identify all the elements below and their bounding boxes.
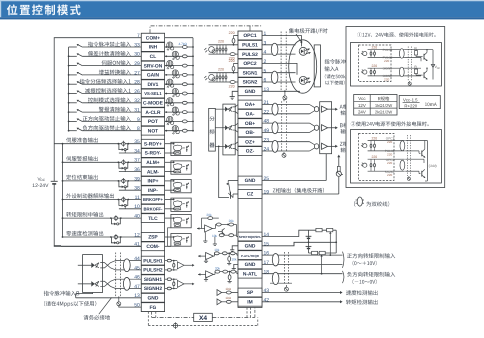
svg-text:220: 220 — [384, 59, 389, 63]
svg-text:GAIN: GAIN — [147, 73, 160, 79]
dashed stubs below SP/IM to enclosure — [246, 308, 248, 318]
svg-text:GND: GND — [245, 89, 256, 95]
svg-text:44: 44 — [134, 256, 140, 262]
svg-text:16: 16 — [264, 251, 270, 257]
line receiver box — [320, 102, 332, 154]
pin box COM+ pin 7 — [141, 33, 164, 42]
pin box N-ATL pin 18 — [238, 269, 262, 278]
wires OA+/- to receiver — [262, 104, 310, 106]
svg-text:220: 220 — [218, 68, 224, 72]
label 集电极开路I/F时 with leader arrow — [289, 28, 328, 34]
label B相输出 — [340, 123, 348, 128]
label 正方向驱动禁止输入 — [83, 116, 131, 121]
resistor 1k (SP) — [226, 291, 231, 294]
svg-text:48: 48 — [264, 119, 270, 125]
input opto row CL — [165, 55, 193, 57]
resistor 4.7k row CL — [182, 55, 187, 58]
opto pair SIGN (box 1) — [363, 70, 367, 74]
pin box S-RDY+ pin 35 — [141, 139, 164, 148]
svg-text:8: 8 — [137, 126, 140, 132]
svg-text:43: 43 — [264, 288, 270, 294]
svg-text:39: 39 — [134, 176, 140, 182]
pin box OZ+ pin 23 — [238, 137, 262, 146]
opto LED lower (SIGN) — [299, 76, 307, 84]
table Vcc / R spec — [354, 95, 397, 116]
svg-text:220: 220 — [387, 161, 392, 165]
vertical resistor 10k (P-ATL) — [228, 257, 231, 262]
wires pair2 box2 — [405, 158, 424, 160]
svg-text:1: 1 — [264, 31, 267, 37]
pin box PULS2 pin 4 — [238, 50, 262, 59]
svg-text:19: 19 — [264, 190, 270, 196]
shield ground symbol analog — [285, 285, 287, 288]
input opto row C-MODE — [165, 102, 193, 104]
wire Z tap to CZ transistor — [219, 146, 229, 197]
svg-text:220: 220 — [372, 136, 378, 140]
wire driver box common to GND row — [76, 293, 93, 294]
svg-text:5: 5 — [264, 68, 267, 74]
svg-text:13: 13 — [134, 293, 140, 299]
ground symbol (SPR opamp) — [204, 239, 206, 242]
svg-text:13: 13 — [264, 87, 270, 93]
svg-text:220: 220 — [229, 85, 235, 89]
output row S-RDY+: load wire from bus — [54, 143, 141, 145]
svg-text:SIGN1: SIGN1 — [243, 70, 258, 76]
pin box SIGN2 pin 6 — [238, 78, 262, 87]
ground symbol (mux) — [214, 237, 216, 244]
potentiometer (top right) with wiper arrow — [327, 228, 333, 231]
wire GND pin13 right — [262, 90, 300, 92]
wire BRKOFF+ to block — [165, 199, 174, 201]
svg-text:3: 3 — [264, 40, 267, 46]
svg-text:24: 24 — [264, 147, 270, 153]
svg-text:SPR/TRQR/SPL: SPR/TRQR/SPL — [239, 235, 261, 239]
wire divider to driver OA — [215, 108, 225, 110]
resistor 1k (IM) — [226, 300, 231, 303]
svg-text:9: 9 — [137, 117, 140, 123]
svg-text:15: 15 — [264, 241, 270, 247]
input opto row INH — [165, 46, 193, 48]
pin box GND pin 15 — [238, 241, 262, 250]
svg-text:SIGN2: SIGN2 — [243, 80, 258, 86]
junction dots pot network — [308, 241, 310, 243]
input opto row POT — [165, 120, 193, 122]
svg-text:17: 17 — [264, 260, 270, 266]
op-amp SPR input circuit — [205, 225, 213, 232]
label 警报清除输入 — [99, 107, 131, 112]
svg-text:SIGNH1: SIGNH1 — [144, 277, 162, 283]
formula box current calculation — [399, 96, 440, 109]
wire TLC to block — [165, 217, 174, 219]
resistor 4.7k row SRV-ON — [182, 64, 187, 67]
svg-text:SRV-ON: SRV-ON — [144, 63, 163, 69]
wire S-RDY- to block — [165, 152, 174, 154]
note title ① 12V、24V电源、使用外接电阻时。 — [357, 32, 435, 37]
svg-text:21: 21 — [264, 100, 270, 106]
pin box SIGNH2 pin 47 — [141, 284, 164, 293]
servo driver enclosure dash-dot top — [150, 26, 262, 33]
label （请在500kpps以下使用） — [325, 74, 354, 79]
resistor 10k to mux — [219, 234, 224, 237]
resistor 4.7k row C-MODE — [182, 101, 187, 104]
pin box INP- pin 38 — [141, 186, 164, 195]
feedback resistor 20k (SPR) — [201, 218, 203, 228]
svg-text:INH: INH — [149, 45, 158, 51]
svg-text:SIGNH2: SIGNH2 — [144, 286, 162, 292]
wire ZSP to block — [165, 236, 174, 238]
svg-text:41: 41 — [134, 242, 140, 248]
opto pair OPC1/PULS2 (box 2) — [363, 144, 367, 148]
wire GND pin13 bottom — [75, 294, 77, 298]
pin box SRV-ON pin 29 — [141, 61, 164, 70]
twisted pair crossover SIGNH — [100, 281, 141, 288]
resistor 4.7k row DIV1 — [182, 83, 187, 86]
svg-text:OPC1: OPC1 — [243, 33, 257, 39]
input switch common bus — [68, 47, 70, 131]
pin box BRKOFF- pin 10 — [141, 204, 164, 213]
wire SIGN1 to interface — [262, 72, 296, 74]
svg-text:A-CLR: A-CLR — [145, 110, 161, 116]
shield ground symbol pulse A — [284, 91, 286, 96]
pin box GND pin 13 — [141, 293, 164, 302]
svg-text:220: 220 — [372, 46, 378, 50]
svg-text:220: 220 — [387, 140, 392, 144]
transistor pair2 box1 — [423, 72, 425, 78]
opto output block S-RDY+/S-RDY- — [171, 142, 191, 155]
terminator resistor PULSH — [173, 261, 175, 270]
svg-text:47: 47 — [134, 284, 140, 290]
wire N-ATL pin18 pair — [262, 273, 343, 275]
svg-text:30: 30 — [134, 52, 140, 58]
output row INP+: load wire from bus — [63, 180, 142, 182]
svg-text:INP+: INP+ — [147, 179, 158, 185]
relay coil + diode ZSP — [110, 236, 112, 238]
input row A-CLR: switch + label wire — [69, 111, 77, 113]
pin box POT pin 9 — [141, 117, 164, 126]
resistors P-ATL chain — [213, 255, 214, 257]
resistor (top left) — [316, 228, 322, 231]
svg-text:18: 18 — [264, 269, 270, 275]
pin box GND pin 13 — [238, 87, 262, 96]
svg-text:OA+: OA+ — [245, 102, 255, 108]
wire GND pin25 to receiver — [262, 180, 326, 182]
buffer SP (speed monitor) — [217, 290, 222, 296]
FG shield dashed path — [147, 312, 149, 326]
pin box OB+ pin 48 — [238, 119, 262, 128]
svg-text:34: 34 — [134, 148, 140, 154]
opto pair PULS (box 1) — [363, 51, 367, 55]
wire SPR pin14 external — [262, 230, 309, 236]
wire PULS1 to interface — [262, 44, 296, 46]
label A相输出 — [340, 104, 348, 109]
twisted pair crossover PULSH — [100, 263, 141, 270]
internal GND pin13 stub with ground — [232, 91, 238, 96]
wire SP pin43 output arrow — [262, 292, 341, 294]
svg-text:36: 36 — [134, 167, 140, 173]
pin box SIGNH1 pin 46 — [141, 275, 164, 284]
resistor 4.7k row VS-SEL1 — [182, 92, 187, 95]
svg-text:VS-SEL1: VS-SEL1 — [144, 91, 162, 96]
wire divider to driver OB — [215, 127, 225, 129]
twisted pair symbols OA OB OZ — [272, 103, 278, 115]
svg-text:CZ: CZ — [247, 192, 254, 198]
block 分频器 (frequency divider) — [209, 108, 216, 151]
svg-text:49: 49 — [264, 128, 270, 134]
arrow output B相 — [328, 127, 337, 129]
internal receiver PULSH: input resistors — [165, 260, 178, 262]
pin box GND pin 25 — [238, 176, 262, 185]
label 转矩检测输出 — [346, 300, 378, 305]
pin box BRKOFF+ pin 11 — [141, 195, 164, 204]
svg-text:7: 7 — [137, 33, 140, 39]
wire INP- to block — [165, 189, 174, 191]
wire SIGN2 to interface — [262, 81, 296, 83]
resistor R pair2 box1 — [415, 67, 417, 70]
cable shield dashed lines pulse input B — [115, 253, 117, 297]
pin box OA- pin 22 — [238, 109, 262, 118]
svg-text:2kΩ1/2W: 2kΩ1/2W — [375, 110, 392, 115]
svg-text:10: 10 — [134, 204, 140, 210]
svg-text:DIV1: DIV1 — [148, 82, 159, 88]
svg-text:COM-: COM- — [146, 244, 159, 250]
input row DIV1: switch + label wire — [69, 83, 77, 85]
resistor 4.7k row INH — [182, 46, 187, 49]
receiver comparator SIGNH — [177, 280, 184, 287]
svg-text:OB+: OB+ — [245, 121, 255, 127]
resistors N-ATL chain — [213, 273, 215, 275]
svg-text:PULSH1: PULSH1 — [143, 258, 163, 264]
wire INP- row — [119, 189, 141, 191]
svg-text:GND: GND — [245, 262, 256, 268]
svg-text:220: 220 — [384, 77, 389, 81]
pin box OPC1 pin 1 — [238, 31, 262, 40]
svg-text:OA-: OA- — [246, 112, 255, 118]
output row BRKOFF+: load wire from bus — [63, 199, 142, 201]
pin box A-CLR pin 31 — [141, 108, 164, 117]
svg-text:): ) — [435, 164, 436, 168]
pin box COM- pin 41 — [141, 242, 164, 251]
X4 connector box — [194, 313, 213, 321]
svg-text:46: 46 — [134, 275, 140, 281]
svg-text:31: 31 — [134, 108, 140, 114]
pin box OA+ pin 21 — [238, 100, 262, 109]
svg-text:FG: FG — [150, 305, 157, 311]
svg-text:20k: 20k — [215, 266, 221, 270]
pin box INH pin 33 — [141, 43, 164, 52]
svg-text:OPC2: OPC2 — [243, 61, 257, 67]
shield ground box2 — [408, 176, 410, 177]
ground symbol (P-ATL opamp) — [205, 258, 207, 261]
svg-text:S-RDY+: S-RDY+ — [144, 141, 162, 147]
svg-text:PULS2: PULS2 — [242, 52, 258, 58]
svg-text:220: 220 — [218, 40, 224, 44]
svg-text:26: 26 — [134, 89, 140, 95]
pin box OZ- pin 24 — [238, 147, 262, 156]
svg-text:S-RDY-: S-RDY- — [145, 151, 162, 157]
wire FG pin50 — [119, 305, 142, 307]
pin box VS-SEL1 pin 26 — [141, 89, 164, 98]
controller dashed box ① — [359, 45, 392, 82]
ground symbol (N-ATL opamp) — [205, 277, 207, 280]
svg-text:32: 32 — [134, 98, 140, 104]
twisted pair symbols box1 — [399, 49, 404, 59]
wire GND pin15 external — [262, 242, 336, 246]
input opto row VS-SEL1 — [165, 93, 193, 95]
legend （〇 为双绞线） — [354, 201, 356, 207]
svg-text:42: 42 — [264, 297, 270, 303]
shield ground symbol — [118, 296, 120, 302]
svg-text:N-ATL: N-ATL — [243, 271, 257, 277]
wire GND pin25 internal — [228, 180, 238, 182]
inner schematic box ② — [351, 130, 442, 184]
pin box ALM+ pin 37 — [141, 158, 164, 167]
relay coil + diode BRKOFF+/BRKOFF- — [118, 199, 120, 201]
relay coil + diode S-RDY+/S-RDY- — [118, 143, 120, 145]
wire COM- row — [61, 245, 141, 247]
pin box DIV1 pin 28 — [141, 80, 164, 89]
wire GND pin17 internal — [234, 264, 238, 268]
svg-text:ALM-: ALM- — [147, 169, 160, 175]
svg-text:220: 220 — [372, 64, 378, 68]
driver OA (differential) — [225, 107, 228, 112]
receiver A相 — [310, 105, 315, 108]
interface bracket rectangle — [314, 45, 320, 87]
relay coil + diode TLC — [110, 217, 112, 219]
net COM+ bus (VDC+) vertical — [54, 38, 141, 182]
resistor network SPR output — [212, 228, 215, 230]
resistor 4.7k row GAIN — [182, 73, 187, 76]
buffer IM (torque monitor) — [217, 299, 222, 305]
resistor 4.7k row A-CLR — [182, 111, 187, 114]
driver PULSH pair — [91, 263, 94, 268]
svg-text:220: 220 — [372, 155, 378, 159]
svg-text:27: 27 — [134, 70, 140, 76]
opto LED upper (PULS) — [299, 47, 307, 55]
servo driver enclosure dash-dot bottom — [151, 312, 153, 318]
wire driver OA outputs — [233, 105, 238, 107]
label 指令脉冲禁止输入 — [88, 42, 131, 47]
svg-text:4: 4 — [264, 50, 267, 56]
net VDC- bus to COM- — [54, 184, 61, 246]
wire OPC1 to interface — [262, 36, 301, 47]
input row VS-SEL1: switch + label wire — [69, 93, 77, 95]
wire PULS2 to interface — [262, 53, 296, 55]
relay coil + diode INP+/INP- — [118, 180, 120, 182]
svg-text:22: 22 — [264, 109, 270, 115]
pin box PULSH1 pin 44 — [141, 256, 164, 265]
relay coil + diode ALM+/ALM- — [118, 161, 120, 163]
label 偏差计数清除输入 — [88, 51, 131, 56]
svg-text:12-24V: 12-24V — [32, 183, 49, 189]
svg-text:50: 50 — [134, 303, 140, 309]
twisted pair symbol PULSH — [123, 259, 130, 272]
svg-text:33: 33 — [134, 42, 140, 48]
note title ② 使用24V电源不使用外接电阻时。 — [351, 121, 429, 126]
line driver block — [223, 104, 235, 155]
input opto row NOT — [165, 130, 193, 132]
receiver Z相 — [310, 142, 315, 145]
pin box OPC2 pin 2 — [238, 59, 262, 68]
pin box NOT pin 8 — [141, 126, 164, 135]
resistor (bottom left) — [312, 251, 318, 254]
input row GAIN: switch + label wire — [69, 74, 77, 76]
label 指令脉冲输入B — [44, 291, 80, 296]
label 负方向转矩限制输入 — [347, 272, 395, 277]
op-amp P-ATL input circuit — [206, 253, 214, 260]
wire S-RDY- row — [119, 152, 141, 154]
twisted pair symbol P-ATL — [272, 254, 279, 266]
internal input circuit PULS1/PULS2 with 220 ohm resistors — [209, 44, 239, 46]
output row ALM+: load wire from bus — [63, 161, 142, 163]
output row ZSP: load wire from bus — [63, 236, 142, 238]
label 伺服警报输出 — [66, 156, 98, 161]
wire CZ pin19 with pullup to VDC — [262, 193, 339, 195]
label 增益转换输入 — [99, 70, 131, 75]
svg-text:37: 37 — [134, 158, 140, 164]
opto output block ALM+/ALM- — [171, 161, 191, 174]
protective earth symbol on shield path — [173, 323, 177, 327]
svg-text:GND: GND — [148, 296, 159, 302]
svg-text:OZ+: OZ+ — [245, 139, 255, 145]
net 4.7kohm pullup rail — [192, 38, 194, 131]
svg-text:6: 6 — [264, 78, 267, 84]
svg-text:29: 29 — [134, 61, 140, 67]
external line driver box (pulse input B) — [83, 255, 103, 293]
label 19 Z相输出（集电极开路） — [273, 188, 324, 193]
wire COM- to blocks emitter rail — [165, 245, 171, 247]
wire ALM- to block — [165, 171, 174, 173]
wire driver OZ outputs — [233, 142, 238, 144]
input row CL: switch + label wire — [69, 55, 77, 57]
wire ALM- row — [119, 171, 141, 173]
wire COM+ pin7 to 4.7k rail — [165, 37, 193, 39]
op-amp N-ATL input circuit — [206, 271, 214, 278]
pin box P-ATL/TRQR pin 16 — [238, 251, 262, 260]
pair end bracket P-ATL — [343, 252, 344, 268]
wire IM pin42 output arrow — [262, 301, 341, 303]
svg-text:14: 14 — [264, 232, 270, 238]
svg-text:1kΩ: 1kΩ — [225, 296, 231, 300]
label 正方向转矩限制输入 — [347, 253, 395, 258]
svg-text:Vcc-1.5: Vcc-1.5 — [403, 97, 418, 102]
svg-text:ALM+: ALM+ — [146, 160, 160, 166]
wire OPC2 to interface — [262, 63, 297, 74]
cable shield dashed lines pulse A — [280, 32, 282, 92]
info outer box (power supply notes) — [346, 27, 445, 188]
label 指令脉冲输入A — [325, 59, 346, 64]
svg-text:10k: 10k — [231, 258, 237, 262]
inner schematic box ① — [351, 43, 442, 87]
pin box CZ pin 19 — [238, 190, 262, 199]
svg-text:28: 28 — [134, 80, 140, 86]
svg-text:INP-: INP- — [148, 188, 158, 194]
label 伺服准备输出 — [66, 138, 98, 143]
receiver output arrow PULSH — [184, 264, 193, 266]
svg-text:POT: POT — [148, 119, 158, 125]
pin box SIGN1 pin 5 — [238, 68, 262, 77]
battery cells on left branch — [306, 235, 312, 237]
shield dashed box2 — [406, 135, 408, 176]
twisted pair symbols box2 — [400, 141, 405, 151]
opto output block TLC — [171, 214, 191, 227]
wire GND pin17 pair — [262, 263, 343, 265]
twisted pair symbol SIGNH — [123, 277, 130, 290]
label Z相输出 — [340, 141, 348, 146]
svg-text:220: 220 — [387, 173, 392, 177]
rail VDC box1 — [432, 50, 434, 80]
svg-text:220: 220 — [229, 31, 235, 35]
wire GND pin15 internal — [232, 246, 238, 250]
